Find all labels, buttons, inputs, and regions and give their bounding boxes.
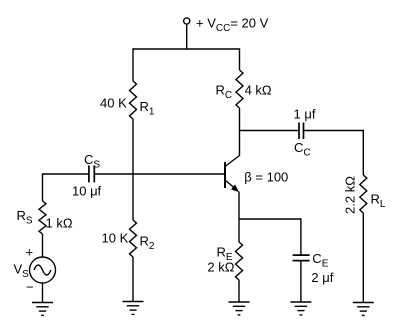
wire collector node to CC bbox=[240, 130, 300, 132]
ground RE bbox=[229, 301, 250, 303]
wire base bbox=[43, 173, 89, 175]
wire top rail bbox=[133, 48, 240, 50]
wire emitter node bbox=[239, 218, 301, 220]
ground R2 bbox=[123, 301, 144, 303]
wire collector bbox=[239, 108, 241, 156]
wire bbox=[362, 130, 364, 175]
transistor Q1 bbox=[225, 156, 240, 193]
wire bbox=[238, 219, 240, 242]
VCC terminal bbox=[184, 18, 190, 24]
resistor R2 bbox=[130, 220, 137, 257]
wire bbox=[300, 218, 302, 255]
svg-text:2 kΩ: 2 kΩ bbox=[207, 260, 234, 275]
sine wave bbox=[34, 265, 51, 275]
wire bbox=[238, 280, 240, 302]
wire bbox=[132, 119, 134, 174]
wire CC to RL bbox=[304, 130, 365, 132]
capacitor CE bbox=[293, 255, 310, 261]
ground VS bbox=[32, 302, 53, 304]
svg-text:−: − bbox=[26, 280, 34, 295]
svg-text:1 kΩ: 1 kΩ bbox=[46, 215, 73, 230]
resistor RS bbox=[39, 201, 46, 234]
wire bbox=[239, 48, 241, 70]
wire input branch bbox=[42, 173, 44, 201]
svg-text:4 kΩ: 4 kΩ bbox=[245, 83, 272, 98]
svg-text:40 K: 40 K bbox=[100, 96, 127, 111]
resistor RL bbox=[360, 175, 367, 213]
wire bbox=[42, 283, 44, 303]
wire base to transistor bbox=[94, 173, 225, 175]
wire bbox=[132, 48, 134, 81]
resistor RE bbox=[236, 242, 243, 280]
source VS bbox=[30, 257, 56, 283]
svg-text:1 μf: 1 μf bbox=[294, 106, 316, 121]
resistor R1 bbox=[130, 81, 137, 119]
wire bbox=[186, 24, 188, 49]
svg-text:+: + bbox=[26, 245, 34, 260]
capacitor CC bbox=[299, 123, 304, 140]
svg-text:10 K: 10 K bbox=[102, 230, 129, 245]
ground CE bbox=[290, 301, 311, 303]
wire bbox=[300, 261, 302, 302]
ground RL bbox=[353, 302, 374, 304]
wire bbox=[132, 257, 134, 302]
wire bbox=[362, 213, 364, 303]
wire R2 branch bbox=[132, 174, 134, 220]
svg-text:2.2 kΩ: 2.2 kΩ bbox=[343, 176, 358, 214]
svg-text:10 μf: 10 μf bbox=[72, 183, 102, 198]
svg-text:2 μf: 2 μf bbox=[311, 270, 333, 285]
capacitor CS bbox=[89, 165, 94, 182]
resistor RC bbox=[236, 70, 243, 108]
wire emitter bbox=[238, 192, 240, 220]
wire bbox=[42, 234, 44, 257]
svg-text:β = 100: β = 100 bbox=[244, 169, 288, 184]
